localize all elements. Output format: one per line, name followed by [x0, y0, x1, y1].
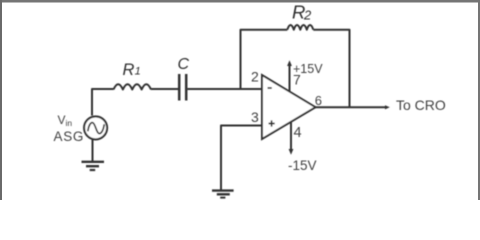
- svg-text:1: 1: [135, 66, 141, 78]
- svg-text:-15V: -15V: [288, 158, 317, 173]
- svg-text:V: V: [58, 113, 66, 127]
- svg-text:3: 3: [251, 109, 259, 125]
- svg-text:in: in: [66, 118, 73, 128]
- svg-text:2: 2: [303, 7, 312, 22]
- svg-text:6: 6: [315, 93, 322, 108]
- svg-text:To CRO: To CRO: [396, 97, 446, 113]
- svg-text:+15V: +15V: [293, 62, 323, 76]
- svg-text:2: 2: [251, 69, 259, 85]
- svg-text:C: C: [178, 56, 190, 73]
- svg-text:4: 4: [294, 125, 302, 141]
- svg-text:ASG: ASG: [54, 129, 85, 144]
- svg-text:R: R: [123, 61, 135, 79]
